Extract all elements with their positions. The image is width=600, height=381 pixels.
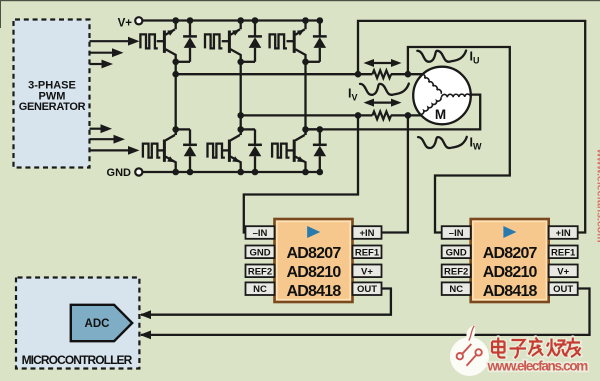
watermark logo elecfans [450,325,489,376]
node GND [107,167,143,179]
watermark text chinese (drawn strokes) [492,338,581,359]
pin U2 REF2 [442,265,471,278]
current waveform IV [360,84,409,95]
svg-text:NC: NC [449,284,463,295]
pin U2 OUT [549,282,578,295]
pin U1 REF1 [353,246,382,259]
microcontroller block [16,278,139,369]
svg-text:MICROCONTROLLER: MICROCONTROLLER [22,353,133,367]
3-phase PWM generator block [14,20,90,168]
transistor Q2 with diode D2 (bottom leg U) [157,126,197,175]
pin U1 NC [246,282,275,295]
current waveform IW [418,137,467,148]
pin U1 GND [246,246,275,259]
pin U1 OUT [353,282,382,295]
svg-text:AD8418: AD8418 [483,283,538,300]
svg-text:www.elecfans.com: www.elecfans.com [595,148,600,243]
pin U2 +IN [549,226,578,239]
wire amp1 +IN sense [382,115,408,232]
op-amp U2 AD8207/AD8210/AD8418 [471,219,549,302]
svg-text:–IN: –IN [449,228,464,239]
pin U1 +IN [353,226,382,239]
svg-text:OUT: OUT [553,284,573,295]
wire leg W midpoint [304,62,306,135]
top edge line [0,0,600,1]
svg-text:GENERATOR: GENERATOR [19,101,86,113]
arrowhead ADC in 2 [140,331,151,340]
wire amp2 +IN sense [358,21,585,233]
svg-text:OUT: OUT [357,284,377,295]
svg-text:M: M [435,107,446,122]
wire phase U [176,73,422,75]
bidirectional arrow over shunt U [364,59,402,67]
node phase V tap [237,112,244,119]
svg-text:GND: GND [249,247,270,258]
wire V+ rail [143,19,320,21]
shunt resistor RU [372,70,391,78]
svg-text:REF2: REF2 [444,266,468,277]
node shunt U right [405,71,412,78]
gate drive arrows [90,37,140,155]
arrowhead ADC in 1 [140,310,151,319]
node shunt U left [355,71,362,78]
svg-text:+IN: +IN [359,228,374,239]
svg-text:AD8207: AD8207 [287,245,342,262]
node V+ [118,17,143,29]
current waveform IU [417,51,466,62]
svg-text:V+: V+ [361,266,373,277]
PWM symbol 1 [140,34,157,48]
svg-text:ADC: ADC [85,318,110,330]
transistor Q6 with diode D6 (bottom leg W) [287,126,327,175]
PWM symbol 6 [272,144,289,158]
watermark text chinese halo [492,338,581,359]
svg-text:GND: GND [107,167,132,179]
transistor Q3 with diode D3 (top leg V) [222,17,262,65]
transistor Q5 with diode D5 (top leg W) [287,17,327,65]
svg-text:GND: GND [446,247,467,258]
svg-text:AD8207: AD8207 [483,245,538,262]
node phase W diode junction [317,126,324,133]
wire phase V [241,114,421,116]
ADC block [71,305,132,341]
svg-text:–IN: –IN [253,228,268,239]
bidirectional arrow over shunt V [364,99,402,107]
wire amp2 -IN sense [408,47,510,233]
svg-text:V+: V+ [118,17,133,29]
pin U2 NC [442,282,471,295]
svg-text:REF1: REF1 [355,247,380,258]
PWM symbol 5 [208,144,225,158]
svg-text:+IN: +IN [556,228,571,239]
transistor Q4 with diode D4 (bottom leg V) [222,126,262,175]
svg-text:REF2: REF2 [248,266,272,277]
svg-text:AD8210: AD8210 [483,264,538,281]
wire phase W [306,95,481,130]
transistor Q1 with diode D1 (top leg U) [157,17,197,65]
wire GND rail [143,171,320,173]
svg-text:V+: V+ [557,266,569,277]
wire leg V midpoint [240,62,242,135]
pin U2 GND [442,246,471,259]
svg-text:www.elecfans.com: www.elecfans.com [487,359,589,374]
svg-text:REF1: REF1 [551,247,576,258]
pin U1 V+ [353,265,382,278]
node phase U tap [172,71,179,78]
PWM symbol 3 [270,34,287,48]
pin U2 V+ [549,265,578,278]
wire leg U midpoint [175,62,177,135]
pin U1 REF2 [246,265,275,278]
op-amp U1 AD8207/AD8210/AD8418 [275,219,353,302]
PWM symbol 4 [143,144,160,158]
PWM symbol 2 [205,34,222,48]
shunt resistor RV [372,112,391,120]
node shunt V right [405,112,412,119]
pin U2 REF1 [549,246,578,259]
pin U2 -IN [442,226,471,239]
wire amp2 OUT to ADC [141,289,590,335]
svg-text:AD8418: AD8418 [287,283,342,300]
svg-text:AD8210: AD8210 [287,264,342,281]
node shunt V left [355,112,362,119]
svg-text:NC: NC [253,284,267,295]
motor M [413,67,471,125]
pin U1 -IN [246,226,275,239]
wire amp1 OUT to ADC [141,289,391,315]
wire amp1 -IN sense [244,115,358,232]
